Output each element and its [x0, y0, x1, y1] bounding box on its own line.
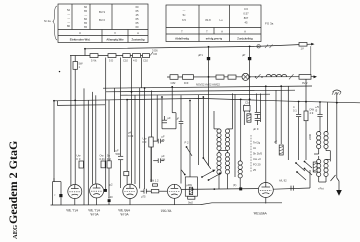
wire — [53, 101, 55, 182]
svg-text:erfolg.prw-tq: erfolg.prw-tq — [206, 37, 223, 41]
dial lamp — [242, 73, 249, 80]
wire — [161, 97, 163, 129]
svg-text:0.1: 0.1 — [293, 109, 297, 113]
junction — [280, 85, 282, 87]
RF transformer right upper — [314, 102, 330, 161]
trimmer capacitor pair (x=257.5) — [255, 112, 261, 125]
wire — [108, 100, 110, 161]
svg-text:µF: µF — [274, 140, 278, 144]
svg-text:Zurückelhtg: Zurückelhtg — [237, 37, 253, 41]
wire — [249, 77, 251, 112]
svg-text:BU 0: BU 0 — [99, 18, 105, 22]
svg-text:D6: D6 — [154, 52, 158, 56]
svg-text:F 3: F 3 — [77, 157, 81, 161]
wire — [336, 103, 338, 178]
grid resistor (x=103) — [101, 161, 105, 168]
svg-text:1V: 1V — [301, 47, 304, 51]
title text AEG Geadem 2 GtaG — [6, 141, 20, 239]
wire — [175, 113, 177, 129]
svg-text:µP: µP — [242, 53, 246, 57]
wire — [131, 58, 133, 184]
wire — [120, 160, 122, 188]
svg-text:807: 807 — [244, 16, 249, 20]
svg-text:µF: µF — [168, 116, 172, 120]
wire bus C — [121, 94, 271, 95]
svg-text:4: 4 — [293, 105, 295, 109]
wire — [256, 94, 258, 113]
wave switch S2 arrows — [181, 170, 222, 181]
svg-text:60: 60 — [84, 5, 87, 9]
svg-text:—: — — [183, 9, 186, 12]
wire — [265, 86, 267, 182]
junction — [189, 100, 191, 102]
svg-text:52: 52 — [67, 8, 70, 12]
junction — [336, 102, 338, 104]
svg-text:A: A — [137, 31, 139, 35]
junction — [202, 96, 204, 98]
svg-text:C1v: C1v — [245, 101, 250, 105]
anode supply bus (top left) — [70, 55, 150, 57]
svg-text:—: — — [67, 17, 70, 20]
wire — [319, 117, 321, 132]
speck — [59, 71, 60, 72]
svg-text:DrF: DrF — [184, 81, 189, 85]
svg-text:A/L 92: A/L 92 — [279, 179, 287, 183]
wire — [139, 88, 141, 189]
wire bus D (heavy) — [54, 98, 360, 102]
svg-text:Geadem 2 GtaG: Geadem 2 GtaG — [6, 141, 20, 224]
capacitor (x=120.5) — [118, 155, 123, 157]
svg-text:µF 9: µF 9 — [253, 127, 259, 131]
svg-text:—: — — [67, 21, 70, 24]
wire — [134, 95, 136, 184]
wire — [70, 56, 72, 187]
terminal P1 (antenna post) — [208, 47, 210, 77]
svg-text:45: 45 — [136, 13, 139, 17]
svg-text:µ2: µ2 — [110, 183, 114, 187]
svg-text:5h 2b/5: 5h 2b/5 — [253, 152, 262, 156]
mains / dial lamp row — [167, 46, 317, 86]
wire bus B — [106, 90, 295, 92]
wire — [234, 94, 236, 177]
wire — [150, 91, 152, 183]
svg-text:—: — — [84, 14, 87, 17]
resistor box — [216, 75, 224, 79]
earth symbol (top right) — [332, 90, 341, 103]
wire: link between fuse box and 9V box — [310, 46, 312, 75]
switch blade — [289, 74, 294, 79]
capacitor C (x=298) — [296, 113, 301, 115]
arrow end — [314, 75, 318, 78]
svg-text:Nr 2a: Nr 2a — [44, 19, 51, 23]
fuse box F with arrow (top right) — [299, 43, 307, 47]
junction — [305, 101, 307, 103]
capacitor uF 6M — [157, 158, 159, 163]
wire — [260, 94, 262, 123]
svg-text:82: 82 — [84, 17, 87, 21]
svg-text:Zustandtg: Zustandtg — [132, 38, 145, 42]
svg-text:≈: ≈ — [54, 194, 56, 197]
capacitor uF (x=164,y=121) — [162, 119, 167, 121]
svg-text:µP1: µP1 — [198, 53, 203, 57]
coupling cap blob (V5 grid) — [239, 187, 242, 190]
svg-text:W 04: W 04 — [90, 213, 99, 217]
wire — [171, 87, 173, 113]
svg-text:Tel 2g: Tel 2g — [253, 141, 261, 145]
svg-text:5W 1.2: 5W 1.2 — [150, 179, 159, 183]
svg-text:A: A — [244, 30, 246, 34]
svg-text:+/5: +/5 — [315, 105, 319, 109]
wire — [287, 86, 289, 160]
svg-text:C10: C10 — [123, 59, 128, 63]
svg-text:tnt: tnt — [253, 146, 256, 150]
junction — [171, 86, 173, 88]
svg-text:FO 20: FO 20 — [253, 163, 261, 167]
label +D6 at bus end — [150, 52, 153, 55]
svg-text:65: 65 — [136, 21, 139, 25]
svg-text:5 D: 5 D — [109, 59, 113, 63]
junction — [74, 100, 76, 102]
junction — [249, 46, 251, 48]
wave switch S1 — [202, 157, 204, 159]
wire — [240, 99, 242, 161]
wire — [83, 88, 85, 204]
resistor R4 on bus — [123, 54, 130, 58]
speaker switch — [295, 162, 310, 188]
svg-text:T: T — [206, 30, 208, 34]
svg-text:2200: 2200 — [308, 134, 312, 140]
wire — [156, 95, 158, 141]
svg-text:A: A — [221, 30, 223, 34]
svg-text:0.6: 0.6 — [244, 7, 248, 11]
svg-text:Elektroden-Wid.: Elektroden-Wid. — [70, 38, 91, 42]
svg-text:6.5: 6.5 — [182, 18, 186, 22]
svg-text:C82: C82 — [171, 81, 176, 85]
junction — [126, 99, 128, 101]
wire — [92, 92, 94, 185]
connector symbol on top wire — [257, 45, 260, 48]
svg-text:U: U — [79, 31, 81, 35]
resistor 9V box — [299, 75, 311, 80]
svg-text:60: 60 — [136, 25, 139, 29]
grid resistor blob — [108, 199, 111, 202]
resistor (hatched, x=248.8) — [247, 114, 251, 122]
resistor R6 on bus — [143, 54, 150, 58]
resistor Uw F3 (x=151) — [149, 137, 153, 147]
svg-text:C10: C10 — [143, 59, 148, 63]
resistor R1 (vertical, left end of bus) — [74, 56, 76, 62]
wire — [120, 58, 122, 157]
svg-text:µ9W: µ9W — [186, 183, 192, 187]
wire: long top distribution wire — [85, 45, 299, 49]
svg-text:Abfall-wtlg: Abfall-wtlg — [175, 37, 189, 41]
svg-text:6M: 6M — [162, 157, 166, 161]
svg-text:5c: 5c — [183, 13, 186, 17]
wire — [275, 90, 277, 144]
terminal P2 (earth post) — [249, 47, 251, 78]
wire — [180, 124, 182, 184]
svg-text:T: T — [181, 30, 183, 34]
junction — [265, 85, 267, 87]
svg-text:(F): (F) — [233, 183, 237, 187]
svg-text:0.01: 0.01 — [100, 157, 106, 161]
resistor (x=109) — [107, 161, 111, 168]
svg-text:—: — — [67, 13, 70, 16]
svg-text:F 3: F 3 — [143, 140, 147, 144]
junction — [240, 99, 242, 101]
wire — [180, 95, 182, 121]
choke DrF — [167, 76, 316, 78]
tuning coil L3 (x=240) — [238, 161, 242, 188]
wire — [105, 58, 107, 190]
resistor R3 on bus — [108, 54, 116, 58]
wire — [305, 121, 307, 160]
tube V5 RES064 — [258, 183, 273, 204]
resistor DW 4.9 — [304, 111, 308, 121]
grid resistor (horizontal) — [151, 190, 159, 193]
junction — [208, 76, 210, 78]
left grid-leak loop — [53, 178, 63, 205]
resistor R5 on bus — [133, 54, 141, 58]
screen resistor (hatched, x=281) — [274, 140, 283, 156]
wire — [319, 102, 321, 114]
svg-text:60: 60 — [136, 5, 139, 9]
switch contact — [255, 76, 257, 78]
regeneration unit box — [185, 177, 197, 205]
wire — [114, 88, 116, 152]
cathode bottom bus — [51, 203, 283, 205]
svg-text:5 Vk: 5 Vk — [91, 59, 97, 63]
wire — [280, 86, 282, 144]
junction — [84, 48, 86, 50]
resistor C82 — [170, 75, 178, 80]
grid stopper box above V3 — [124, 172, 129, 176]
svg-text:1: 1 — [79, 65, 81, 69]
svg-text:+Pot: +Pot — [318, 187, 324, 191]
svg-text:4 D: 4 D — [133, 59, 137, 63]
svg-text:4.9: 4.9 — [310, 111, 314, 115]
svg-text:RES064: RES064 — [253, 212, 267, 216]
svg-text:65: 65 — [136, 9, 139, 13]
wire — [144, 88, 146, 189]
capacitor C (above callout) — [244, 105, 250, 111]
junction — [144, 87, 146, 89]
svg-text:45: 45 — [162, 138, 165, 142]
junction — [319, 101, 321, 103]
svg-text:45: 45 — [245, 21, 248, 25]
wire — [189, 101, 191, 178]
capacitor uF 45 — [157, 139, 159, 144]
svg-text:65: 65 — [84, 9, 87, 13]
svg-text:9V 2: 9V 2 — [302, 81, 308, 85]
capacitor small (x=181) — [179, 120, 184, 122]
junction — [249, 98, 251, 100]
wire — [305, 79, 307, 111]
svg-text:FG 3a: FG 3a — [265, 22, 274, 26]
svg-text:DW: DW — [310, 108, 315, 112]
svg-text:0w2: 0w2 — [188, 201, 193, 205]
wire break marks — [265, 45, 268, 49]
capacitor C (x=320) — [317, 113, 322, 115]
svg-text:Allampfg.Wte: Allampfg.Wte — [106, 38, 124, 42]
transformer tie — [219, 150, 228, 152]
coil L (mains choke loops) — [266, 74, 287, 77]
svg-text:AEG: AEG — [12, 225, 19, 239]
wire — [141, 58, 143, 89]
svg-text:65: 65 — [136, 17, 139, 21]
junction — [131, 91, 133, 93]
tube V2 RE714 W04 — [90, 184, 104, 205]
svg-text:190 38: 190 38 — [160, 209, 172, 213]
svg-text:Lu: Lu — [220, 18, 223, 22]
junction dots — [53, 46, 338, 104]
wire — [95, 95, 97, 184]
wire — [126, 100, 128, 185]
wire — [208, 77, 210, 166]
svg-text:25: 25 — [253, 168, 256, 172]
svg-text:80: 80 — [67, 24, 70, 28]
voltage table 2 — [166, 5, 261, 42]
wire — [243, 105, 245, 125]
tube type labels (reverse italic like scan) — [66, 209, 268, 217]
svg-text:0.09: 0.09 — [128, 134, 134, 138]
junction — [208, 46, 210, 48]
grid resistor (x=81) — [79, 161, 83, 168]
tube V1 RE714 — [68, 185, 82, 205]
pickup arrow (bottom right) — [331, 175, 342, 196]
wire — [298, 117, 300, 160]
wire bus A — [103, 86, 312, 88]
svg-text:P 2: P 2 — [185, 141, 189, 145]
svg-text:µ75: µ75 — [141, 195, 146, 199]
wire — [87, 100, 89, 205]
wire — [202, 97, 204, 158]
tube V4 RE084 — [167, 184, 181, 204]
parts callout list — [251, 127, 262, 172]
wire: V4 anode to V5 — [181, 188, 258, 191]
svg-text:84.8: 84.8 — [205, 18, 211, 22]
wire — [198, 95, 200, 165]
RF transformer right lower — [317, 156, 331, 182]
svg-text:RE 714: RE 714 — [66, 209, 79, 213]
svg-text:5W: 5W — [79, 62, 83, 66]
wire — [162, 128, 176, 130]
svg-text:65: 65 — [84, 25, 87, 29]
wire — [298, 102, 300, 115]
wire — [172, 112, 176, 114]
svg-text:BU 9: BU 9 — [99, 10, 105, 14]
resistor box — [228, 75, 236, 79]
switch blade P2 — [186, 146, 188, 148]
tube V3 RE064 — [123, 184, 137, 205]
junction — [161, 96, 163, 98]
junction — [249, 76, 251, 78]
IF transformer T2 (mid, lower) — [217, 150, 230, 189]
riser from anode bus to top wire — [84, 49, 86, 56]
coupling cap C (V2 grid) — [104, 189, 107, 192]
IF transformer T1 (mid, upper) — [214, 93, 233, 150]
svg-text:V: V — [114, 31, 116, 35]
voltage table 1 — [58, 4, 148, 43]
svg-text:3 D6: 3 D6 — [152, 49, 158, 53]
svg-text:500: 500 — [116, 152, 121, 156]
svg-text:Uw +0: Uw +0 — [253, 157, 261, 161]
band switch (right) — [304, 161, 312, 175]
svg-text:0.57: 0.57 — [243, 12, 249, 16]
svg-text:µF: µF — [176, 117, 180, 121]
svg-text:+20: +20 — [108, 195, 113, 199]
junction — [53, 100, 55, 102]
coupling cap C (V3/V4) — [141, 189, 152, 199]
wire bus E (short heater link) — [57, 101, 105, 106]
svg-text:F 2: F 2 — [107, 157, 111, 161]
resistor R2 on bus — [90, 54, 98, 58]
svg-text:W 04: W 04 — [120, 213, 129, 217]
svg-text:/5: /5 — [315, 109, 318, 113]
wire — [108, 168, 110, 199]
svg-text:65: 65 — [84, 21, 87, 25]
resistor (hatched, right) — [313, 162, 317, 172]
junction — [298, 101, 300, 103]
